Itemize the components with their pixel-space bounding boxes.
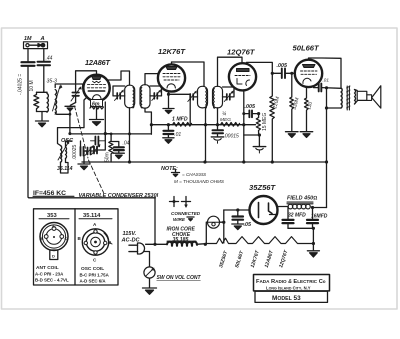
svg-text:.00025: .00025 bbox=[72, 144, 78, 160]
wire to V4 grid bbox=[292, 72, 295, 74]
svg-text:12A86T: 12A86T bbox=[264, 249, 275, 269]
svg-text:35Z56T: 35Z56T bbox=[218, 249, 229, 268]
resistor 50m (osc) bbox=[105, 134, 113, 162]
osc coil detail 35.114 bbox=[78, 213, 113, 284]
tube V5 35Z5GT bbox=[249, 183, 278, 224]
heater resistor chain bbox=[205, 237, 313, 244]
svg-text:.04: .04 bbox=[123, 141, 130, 147]
wire screen rail y124.7 bbox=[151, 124, 255, 126]
wire V2 cathode to trimmer and screen rail bbox=[169, 94, 191, 124]
output transformer core bbox=[347, 86, 351, 110]
capacitor .1 (osc bypass) bbox=[111, 141, 130, 153]
junction node (rail-217.5) bbox=[216, 123, 219, 126]
svg-text:35.114: 35.114 bbox=[83, 213, 101, 219]
trimmer (osc padder) bbox=[84, 145, 97, 156]
resistor 220M (grid leak V4) bbox=[270, 73, 281, 162]
IF transformer 2 primary bbox=[198, 86, 208, 108]
IF label bbox=[33, 190, 74, 197]
svg-text:MEG: MEG bbox=[220, 117, 231, 123]
svg-text:12A86T: 12A86T bbox=[85, 58, 111, 67]
svg-text:A: A bbox=[52, 224, 55, 229]
wire osc coil inner top bbox=[66, 141, 73, 147]
svg-text:= CHASSIS: = CHASSIS bbox=[182, 172, 207, 177]
junction node (129.5-133.9) bbox=[128, 132, 131, 135]
capacitor .05 (line bypass) bbox=[233, 210, 252, 228]
junction node (field right) bbox=[311, 206, 314, 209]
junction node (313-228) bbox=[312, 227, 315, 230]
trimmer (osc shunt) bbox=[92, 134, 106, 155]
svg-text:A-D SEC 6/A: A-D SEC 6/A bbox=[80, 279, 107, 284]
svg-text:VARIABLE CONDENSER 2530I: VARIABLE CONDENSER 2530I bbox=[79, 193, 159, 199]
svg-text:12K76T: 12K76T bbox=[158, 47, 186, 56]
speaker voice coil and cone bbox=[355, 86, 381, 108]
svg-text:FADA RADIO & ELECTRIC Co: FADA RADIO & ELECTRIC Co bbox=[256, 279, 326, 285]
wire B+ vertical bus bbox=[326, 88, 328, 208]
output transformer primary bbox=[341, 88, 342, 108]
IF transformer 1 secondary bbox=[140, 85, 150, 108]
ground (cathode V1) bbox=[90, 120, 104, 126]
svg-text:35Z56T: 35Z56T bbox=[249, 183, 277, 192]
junction node (V3 down .005) bbox=[242, 112, 245, 115]
svg-text:CONNECTED: CONNECTED bbox=[171, 211, 201, 216]
svg-text:A-C PRI - 23A: A-C PRI - 23A bbox=[35, 272, 64, 277]
wire 155 up to rail bbox=[154, 198, 156, 245]
wire grid cap to trimmer bbox=[76, 71, 97, 89]
wire coil sec top to V1 signal grid bbox=[55, 84, 82, 88]
ground (switch) bbox=[143, 288, 157, 294]
junction node (B+ top) bbox=[325, 106, 328, 109]
wire field coil to B+ bbox=[313, 207, 327, 209]
wire IFT2 secondary bottom bbox=[217, 108, 219, 130]
svg-text:B-C PRI 1.75A: B-C PRI 1.75A bbox=[80, 273, 110, 278]
capacitor .01 (screen bypass) bbox=[164, 125, 182, 138]
ground (volume control, earth style) bbox=[253, 147, 265, 153]
pilot lamp bbox=[206, 210, 225, 244]
oscillator coil 35.114 bbox=[57, 141, 73, 173]
trimmer (IFT2 secondary) bbox=[223, 87, 235, 102]
capacitor .04025 bbox=[18, 62, 35, 95]
connected wires legend symbols bbox=[170, 197, 191, 209]
junction node (205.3-244) bbox=[204, 243, 207, 246]
wire ant secondary bottom to osc rail bbox=[55, 112, 70, 133]
capacitor .44 bbox=[38, 56, 53, 66]
svg-text:M = THOUSAND OHMS: M = THOUSAND OHMS bbox=[174, 179, 225, 184]
svg-text:B: B bbox=[78, 236, 82, 241]
svg-text:.01: .01 bbox=[174, 132, 181, 138]
svg-text:WIRE: WIRE bbox=[173, 217, 186, 222]
junction node (rail-243.8) bbox=[242, 123, 245, 126]
wire cap bus bbox=[288, 227, 313, 229]
capacitor .005 (audio coupling) bbox=[244, 104, 259, 117]
coupling capacitor .005 bbox=[272, 63, 292, 78]
svg-text:15 MEG: 15 MEG bbox=[262, 113, 268, 131]
heater string tube labels bbox=[218, 249, 290, 269]
svg-text:12Q76T: 12Q76T bbox=[278, 249, 290, 269]
wire IFT2 secondary top to V3 grid bbox=[218, 57, 243, 86]
ground (V2 cathode) bbox=[163, 109, 174, 114]
svg-text:FIELD 450Ω: FIELD 450Ω bbox=[287, 196, 317, 202]
wire V3 cathode down to rail bbox=[243, 91, 245, 163]
ground (cathode V4) bbox=[300, 132, 313, 138]
svg-text:50L66T: 50L66T bbox=[234, 249, 245, 268]
junction node (V2 cathode) bbox=[167, 93, 170, 96]
junction node (237.8-209.5) bbox=[236, 208, 239, 211]
svg-text:110: 110 bbox=[306, 101, 314, 110]
wire IFT1 primary bottom to B+ rail bbox=[129, 108, 131, 162]
wire antenna box left leg bbox=[27, 49, 29, 62]
ground (ant coil) bbox=[36, 121, 49, 127]
svg-text:.005: .005 bbox=[245, 104, 256, 110]
junction node (111-133.9) bbox=[110, 133, 113, 136]
ground (RF trimmer, chassis inline) bbox=[65, 103, 76, 115]
wire V1 plate to IFT1 bbox=[108, 71, 130, 85]
junction node (V4 grid) bbox=[290, 72, 293, 75]
volume control 15 MEG bbox=[256, 113, 267, 135]
wire V3 plate to coupling cap bbox=[247, 62, 273, 73]
svg-text:B: B bbox=[41, 236, 44, 241]
junction node (vol top) bbox=[257, 112, 260, 115]
resistor 10M (ant shunt) bbox=[29, 80, 39, 111]
IF transformer 1 primary bbox=[125, 85, 135, 108]
IF transformer 2 secondary bbox=[213, 86, 223, 108]
junction node (rail-151) bbox=[150, 123, 153, 126]
svg-text:MODEL 53: MODEL 53 bbox=[272, 295, 301, 302]
ground (diode return, earth style) bbox=[211, 137, 223, 143]
wire osc coil bottom bbox=[61, 159, 69, 174]
svg-text:10 M: 10 M bbox=[29, 80, 35, 91]
junction node (heater right) bbox=[312, 242, 315, 245]
capacitor .00025 (osc grid) bbox=[72, 141, 87, 160]
svg-text:.005: .005 bbox=[277, 63, 288, 69]
svg-text:50L66T: 50L66T bbox=[293, 44, 321, 53]
iron core choke labels bbox=[167, 227, 196, 244]
wire V2 plate top to IFT2 bbox=[172, 62, 205, 86]
svg-text:C: C bbox=[65, 236, 68, 241]
ant coil detail 353 bbox=[35, 213, 69, 283]
wire heater right up to cap bus bbox=[312, 228, 314, 243]
tube V1 12A8GT bbox=[83, 58, 110, 101]
junction node (vol bottom) bbox=[258, 133, 261, 136]
wire ant coil bottom to ground bbox=[37, 112, 48, 121]
wire B+ node at OT primary bottom bbox=[327, 107, 342, 109]
trimmer (IFT2 primary) bbox=[188, 90, 198, 101]
wire IFT1 secondary top to V2 grid bbox=[145, 74, 159, 85]
wire lamp to V5 plate bbox=[224, 209, 250, 211]
AC plug bbox=[129, 243, 145, 254]
resistor 1 MEG (inline rail) bbox=[172, 116, 192, 126]
ground (.05) bbox=[232, 224, 244, 230]
resistor 1/4 MEG (inline rail) bbox=[220, 112, 240, 127]
dashed gang line bbox=[75, 106, 104, 193]
junction node (70-114) bbox=[69, 113, 72, 116]
svg-text:OSC COIL: OSC COIL bbox=[81, 266, 104, 272]
svg-text:A: A bbox=[40, 36, 45, 42]
svg-text:.05: .05 bbox=[244, 222, 252, 228]
field coil 450ohm bbox=[287, 196, 317, 209]
ground (heater end) bbox=[307, 244, 319, 258]
svg-text:220M: 220M bbox=[272, 96, 281, 110]
svg-text:16MFD: 16MFD bbox=[311, 214, 328, 220]
svg-text:LONG ISLAND CITY, N.Y: LONG ISLAND CITY, N.Y bbox=[266, 285, 311, 290]
capacitor (diode return) bbox=[213, 130, 240, 139]
ground (osc) bbox=[78, 164, 90, 170]
svg-text:.00015: .00015 bbox=[224, 134, 240, 140]
svg-text:D: D bbox=[52, 254, 55, 259]
wire vol bottom bus bbox=[244, 135, 260, 146]
tube V2 12K7GT bbox=[158, 47, 186, 92]
svg-text:330M: 330M bbox=[292, 97, 301, 111]
iron core choke coil bbox=[167, 241, 197, 246]
wire choke to heater chain bbox=[197, 243, 206, 246]
svg-text:35.114: 35.114 bbox=[57, 166, 73, 172]
tube V3 12Q7GT bbox=[227, 48, 256, 91]
resistor 110 (cathode V4) bbox=[305, 87, 315, 131]
svg-text:D: D bbox=[108, 240, 112, 245]
junction node (B+ rail 162) bbox=[325, 160, 328, 163]
junction node (rail-205.5) bbox=[204, 123, 207, 126]
junction node (V3 plate line) bbox=[271, 72, 274, 75]
svg-text:1 MFD: 1 MFD bbox=[172, 116, 188, 122]
junction node (162-129.5) bbox=[128, 160, 131, 163]
junction node (osc 69.9-133.6) bbox=[68, 132, 71, 135]
tube V4 50L6GT bbox=[293, 44, 323, 88]
svg-text:32 MFD: 32 MFD bbox=[288, 213, 306, 219]
capacitor (osc cathode cap) bbox=[91, 134, 106, 145]
junction node (rail-168) bbox=[167, 123, 170, 126]
svg-text:SW ON VOL CONT: SW ON VOL CONT bbox=[157, 275, 202, 281]
resistor 330 (diode load) bbox=[290, 73, 301, 131]
wire osc top rail y133.5 bbox=[70, 102, 151, 134]
svg-text:12Q76T: 12Q76T bbox=[227, 48, 256, 57]
ground (330) bbox=[286, 132, 299, 138]
svg-text:¼: ¼ bbox=[222, 112, 226, 118]
trimmer (IFT1 secondary) bbox=[150, 86, 162, 101]
svg-text:1M: 1M bbox=[24, 36, 32, 42]
svg-text:A: A bbox=[93, 222, 97, 227]
svg-text:12K76T: 12K76T bbox=[250, 249, 261, 269]
capacitor 32 MFD bbox=[283, 207, 307, 229]
svg-text:50m: 50m bbox=[105, 152, 111, 162]
wire IFT1 secondary bottom down bbox=[145, 108, 151, 134]
capacitor (screen bypass, on screen line) bbox=[314, 78, 342, 92]
trimmer capacitor (RF tuning) bbox=[71, 86, 82, 102]
wire V5 cathode out bbox=[270, 207, 289, 215]
wire left bus down bbox=[28, 66, 155, 198]
svg-text:353: 353 bbox=[47, 213, 57, 219]
svg-text:C: C bbox=[93, 258, 97, 263]
svg-text:B-D SEC - 4.7VL: B-D SEC - 4.7VL bbox=[35, 278, 69, 283]
svg-text:ANT COIL: ANT COIL bbox=[36, 265, 59, 271]
cathode resistor 6m bbox=[90, 100, 104, 120]
junction node (osc 105-133) bbox=[104, 132, 107, 135]
wire antenna box right leg bbox=[43, 49, 45, 61]
wire V2 cathode down bbox=[168, 91, 170, 108]
svg-text:115V.: 115V. bbox=[123, 231, 137, 237]
title box FADA bbox=[254, 275, 330, 303]
switch SW on vol cont bbox=[144, 267, 202, 288]
ground (osc bypass) bbox=[113, 153, 124, 159]
AVC rail y162 bbox=[82, 161, 327, 163]
junction node (screen B+) bbox=[325, 86, 328, 89]
output transformer secondary bbox=[355, 90, 356, 104]
ant coil secondary bbox=[53, 84, 63, 114]
trimmer (IFT1 primary) bbox=[113, 86, 125, 101]
junction node (162-205) bbox=[203, 160, 206, 163]
wire IFT2 primary bottom to B+ rail bbox=[205, 108, 207, 162]
capacitor 16 MFD bbox=[307, 208, 328, 229]
wire V4 plate to output transformer bbox=[309, 58, 342, 88]
wire osc mid to ground bbox=[83, 151, 85, 164]
svg-text:-.04025 =: -.04025 = bbox=[18, 74, 24, 95]
wire osc grid line bbox=[58, 98, 87, 146]
ant coil 35-3 primary bbox=[47, 79, 57, 113]
connected wire note bbox=[171, 211, 201, 222]
svg-text:.01: .01 bbox=[323, 78, 330, 83]
wire to ant coil bbox=[37, 65, 48, 92]
coil detail box bbox=[34, 209, 119, 285]
antenna terminal strip bbox=[24, 36, 48, 49]
junction node (162-243.8) bbox=[242, 160, 245, 163]
ground (.01 cap) bbox=[163, 138, 174, 144]
svg-text:.44: .44 bbox=[46, 56, 53, 62]
note block bbox=[161, 166, 225, 184]
115V label bbox=[121, 231, 141, 244]
junction node (155-244) bbox=[153, 243, 156, 246]
junction node (162-272.3) bbox=[271, 160, 274, 163]
wire plug to heater line bbox=[144, 244, 167, 266]
